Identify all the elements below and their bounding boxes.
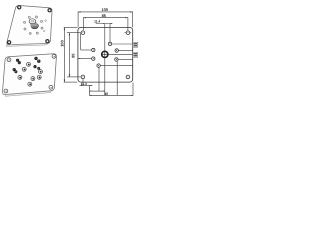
plate P1 corner hole BL [8,41,11,44]
plate P2 (bottom-left 3D view) outline [2,54,56,95]
plate P1 ring hole 7 [35,16,37,18]
hole B [92,57,95,60]
left dimension 85 (vertical) [67,33,81,77]
plate P1 corner hole BR [46,40,49,43]
plate P1 ring hole 2 [36,32,38,34]
plate P2 corner hole BR [49,85,53,89]
plate P2 corner hole TL [7,58,11,62]
plate P1 ring hole 4 [24,28,26,30]
plate P1 (top-left 3D view) outline [7,5,52,44]
plate P2 corner hole TR [52,55,56,59]
front view corner hole TR [126,31,130,35]
plate P1 center boss (cylinder) [29,19,38,29]
plate P2 swirl hole 1 [27,62,31,66]
dimension 100 line (top) [78,12,133,28]
plate P1 bottom thickness side face [6,44,47,47]
front view corner hole BL [81,75,85,79]
plate P2 swirl hole 2 [22,67,26,71]
plate P2 corner hole BL [4,89,8,93]
hole F leader right [118,59,132,61]
center extension down [104,58,106,96]
front view corner hole TL [81,31,85,35]
plate P1 ring hole 5 [24,21,26,23]
plate P1 ring hole 3 [29,32,31,34]
plate P2 swirl hole 5 [37,75,41,79]
plate P1 extra small hole lower right [43,30,45,32]
dimension 11.3 (bottom) [80,79,93,95]
dimension 85 line (top) [83,17,128,30]
hole D [108,42,111,45]
svg-text:45: 45 [104,92,108,96]
plate P2 swirl hole 6 [28,82,32,86]
plate P2 nut pair 1 [16,59,21,65]
dimension 11.4 line [96,24,113,52]
hole H leader right [100,65,132,67]
hole H extension down [98,67,100,91]
hole A [92,48,95,51]
middle bottom dimension line [89,90,104,92]
hole B leader [78,58,91,60]
hole A leader [81,33,92,50]
svg-text:11.4: 11.4 [94,19,100,23]
plate P2 swirl hole 4 [31,77,35,81]
svg-text:11.3: 11.3 [81,82,87,86]
plate P2 nut pair 4 [33,65,40,70]
left dimension 100 (vertical) [64,28,78,83]
front view corner hole TR centermark [125,32,132,34]
hole E [115,49,118,52]
right edge extension down [132,83,134,96]
callout box 1 (right edge) [133,42,138,47]
plate P2 bottom thickness side face [5,91,51,96]
svg-text:100: 100 [101,7,108,12]
front view plate outline [78,27,133,82]
hole F extension down [116,61,118,95]
centerline right [102,53,138,55]
hole E leader right [119,50,133,52]
plate P1 ring hole 6 [28,16,30,18]
plate P2 nut pair 2 [13,68,18,73]
plate P1 corner hole TL [18,6,21,9]
hole H [97,64,100,67]
front view corner hole BR [126,75,130,79]
plate P1 ring hole 8 [41,20,43,22]
plate P1 corner hole TR [48,9,51,12]
callout box 2 (right edge) [133,52,138,57]
plate P2 swirl hole 3 [18,75,22,79]
plate P1 ring hole 1 [41,27,43,29]
dimension 45 (bottom) [89,94,133,96]
svg-text:100: 100 [60,40,65,47]
hole D leader right [112,43,133,45]
plate P1 extra small hole right [45,20,47,22]
plate P2 swirl hole 7 [38,70,42,74]
plate P2 nut pair 3 [34,57,40,63]
center hole (threaded) [101,51,108,58]
hole F [115,58,118,61]
